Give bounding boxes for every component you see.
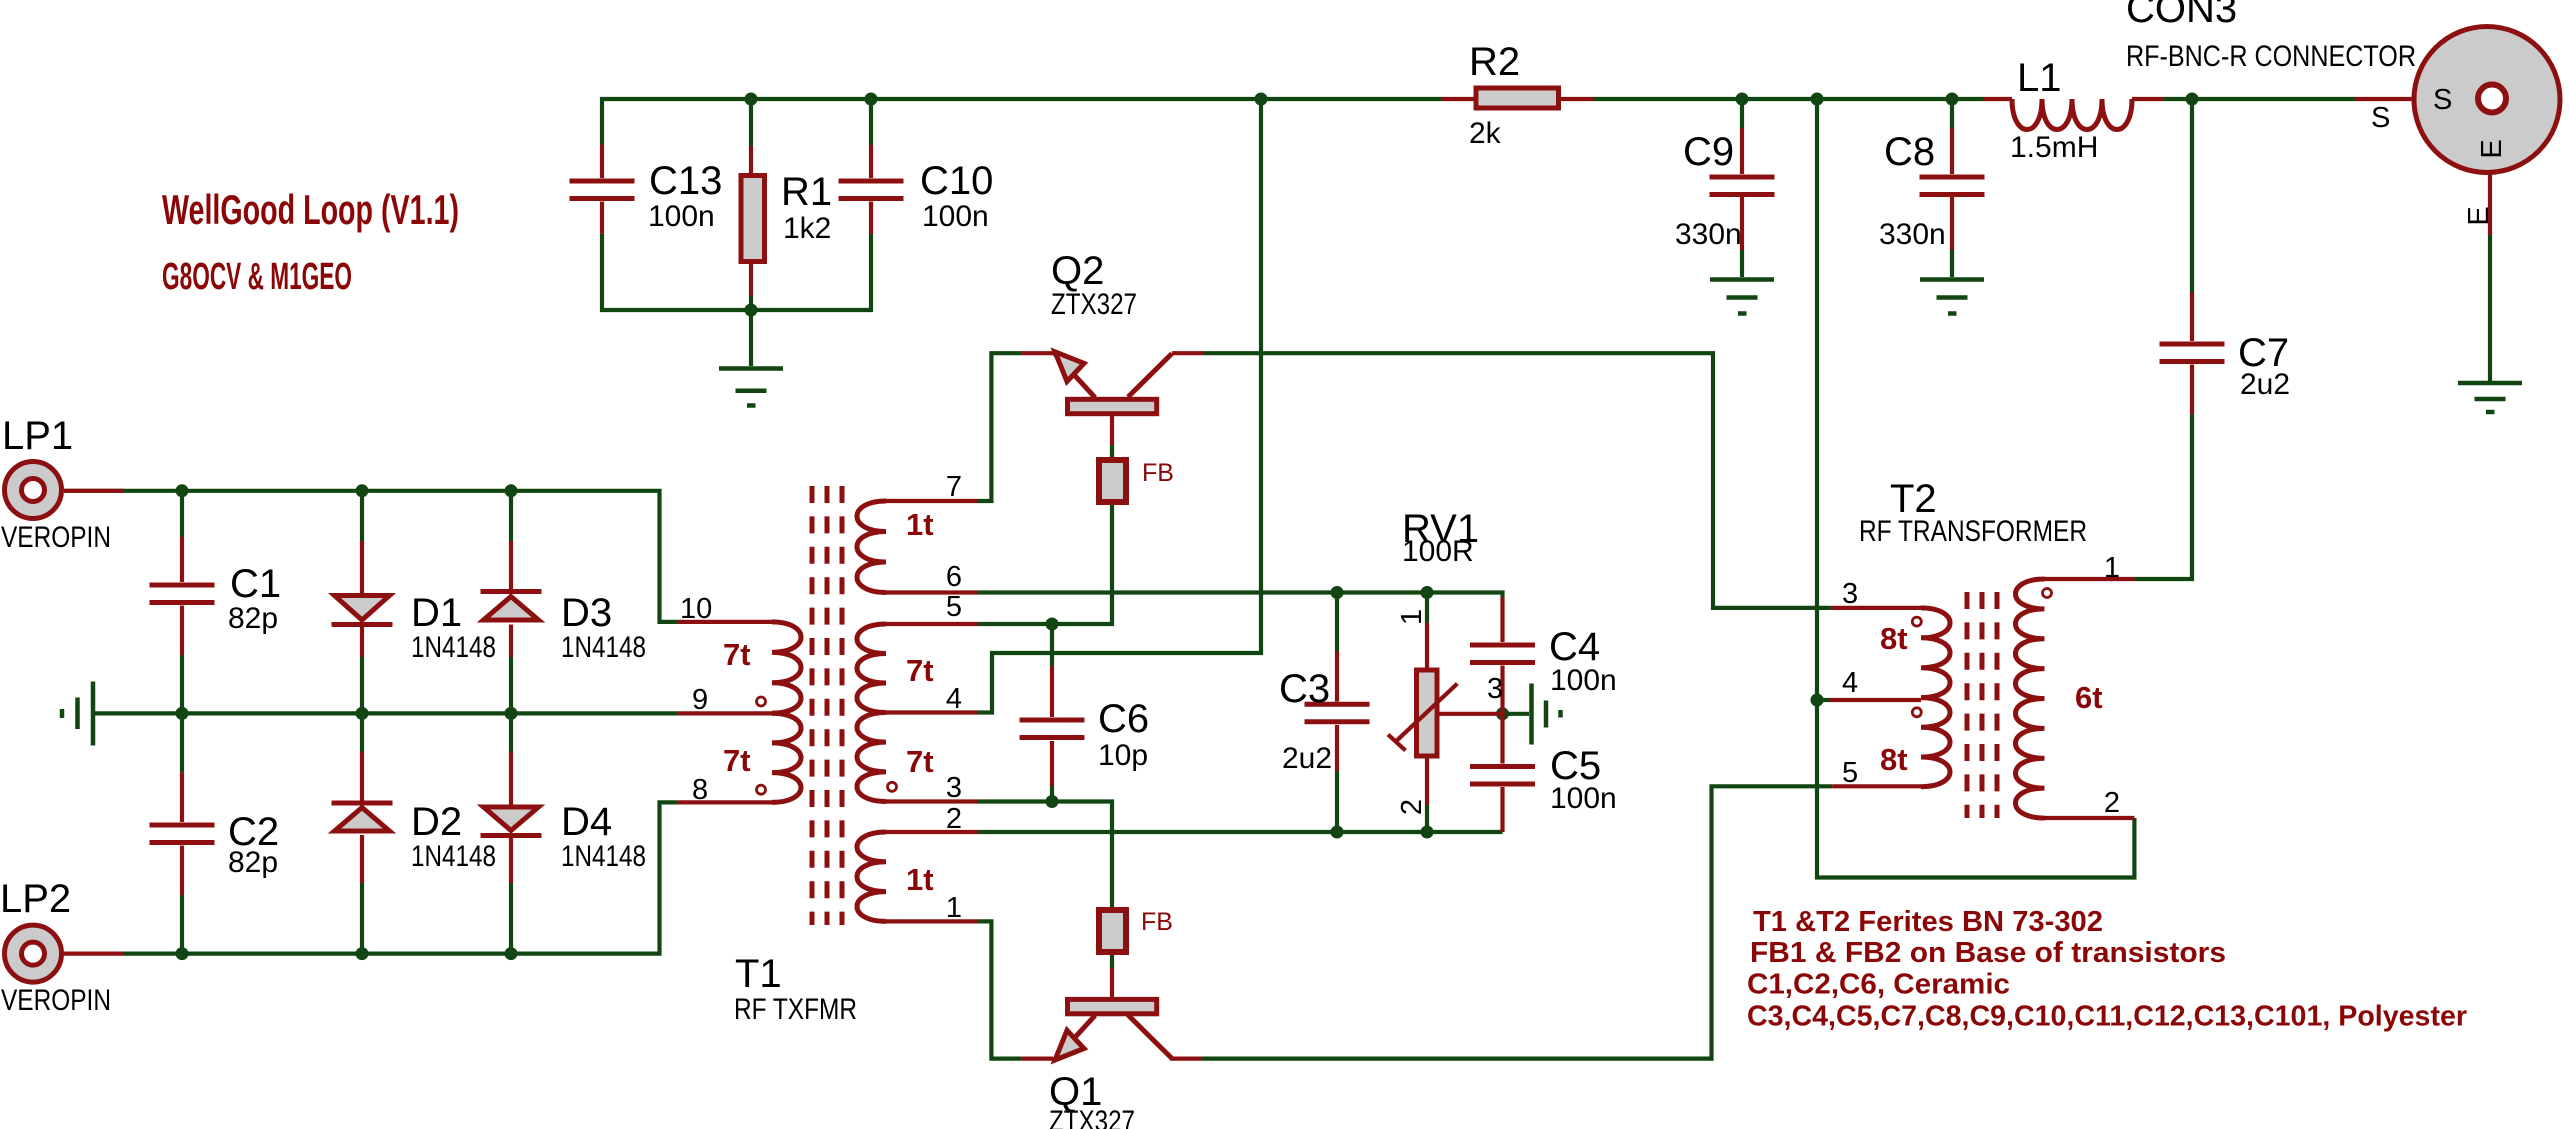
svg-text:8t: 8t: [1880, 621, 1908, 656]
svg-text:S: S: [2433, 84, 2452, 116]
svg-text:1k2: 1k2: [783, 212, 831, 245]
svg-text:R1: R1: [781, 170, 832, 214]
svg-text:1N4148: 1N4148: [411, 840, 496, 873]
svg-text:C1,C2,C6, Ceramic: C1,C2,C6, Ceramic: [1747, 969, 2010, 1001]
svg-text:100n: 100n: [1550, 664, 1617, 697]
svg-text:9: 9: [692, 684, 708, 716]
svg-text:82p: 82p: [228, 602, 278, 635]
svg-text:1N4148: 1N4148: [561, 840, 646, 873]
svg-text:C10: C10: [920, 159, 993, 203]
svg-text:82p: 82p: [228, 846, 278, 879]
svg-text:2: 2: [2104, 787, 2120, 819]
svg-text:10p: 10p: [1098, 739, 1148, 772]
svg-text:10: 10: [680, 593, 712, 625]
svg-text:D3: D3: [561, 591, 612, 635]
svg-text:C4: C4: [1549, 625, 1600, 669]
svg-text:C3: C3: [1279, 667, 1330, 711]
svg-text:2u2: 2u2: [1282, 742, 1332, 775]
svg-text:VEROPIN: VEROPIN: [1, 984, 111, 1017]
svg-text:7t: 7t: [723, 743, 751, 778]
svg-text:L1: L1: [2017, 56, 2062, 100]
svg-text:T1 &T2 Ferites BN 73-302: T1 &T2 Ferites BN 73-302: [1753, 906, 2103, 938]
svg-text:6: 6: [946, 561, 962, 593]
svg-text:1t: 1t: [906, 862, 934, 897]
svg-text:5: 5: [946, 591, 962, 623]
svg-text:LP1: LP1: [2, 414, 73, 458]
svg-text:2: 2: [1396, 799, 1428, 815]
svg-text:D1: D1: [411, 591, 462, 635]
svg-text:100R: 100R: [1402, 535, 1474, 568]
svg-text:1N4148: 1N4148: [561, 631, 646, 664]
svg-text:7t: 7t: [906, 744, 934, 779]
svg-text:Q2: Q2: [1051, 249, 1104, 293]
svg-text:3: 3: [946, 772, 962, 804]
svg-text:2k: 2k: [1469, 117, 1502, 150]
svg-text:C3,C4,C5,C7,C8,C9,C10,C11,C12,: C3,C4,C5,C7,C8,C9,C10,C11,C12,C13,C101, …: [1747, 1001, 2467, 1033]
svg-text:D4: D4: [561, 800, 612, 844]
svg-text:S: S: [2371, 102, 2390, 134]
svg-text:6t: 6t: [2075, 680, 2103, 715]
svg-text:ZTX327: ZTX327: [1051, 288, 1137, 321]
svg-text:4: 4: [946, 683, 962, 715]
svg-text:330n: 330n: [1675, 218, 1742, 251]
svg-text:VEROPIN: VEROPIN: [1, 521, 111, 554]
svg-text:1t: 1t: [906, 507, 934, 542]
svg-text:LP2: LP2: [0, 877, 71, 921]
svg-text:RF TRANSFORMER: RF TRANSFORMER: [1859, 515, 2087, 548]
svg-text:RF-BNC-R CONNECTOR: RF-BNC-R CONNECTOR: [2126, 40, 2416, 73]
svg-text:8: 8: [692, 774, 708, 806]
svg-text:T1: T1: [735, 952, 782, 996]
svg-text:100n: 100n: [1550, 782, 1617, 815]
svg-text:8t: 8t: [1880, 742, 1908, 777]
svg-text:R2: R2: [1469, 40, 1520, 84]
svg-text:C6: C6: [1098, 697, 1149, 741]
svg-text:D2: D2: [411, 800, 462, 844]
svg-text:CON3: CON3: [2126, 0, 2237, 31]
svg-text:2u2: 2u2: [2240, 368, 2290, 401]
svg-text:WellGood Loop (V1.1): WellGood Loop (V1.1): [162, 186, 459, 233]
svg-text:330n: 330n: [1879, 218, 1946, 251]
svg-text:FB: FB: [1142, 459, 1174, 487]
svg-text:RF TXFMR: RF TXFMR: [734, 993, 857, 1026]
svg-text:100n: 100n: [922, 200, 989, 233]
svg-text:2: 2: [946, 803, 962, 835]
svg-text:C1: C1: [230, 562, 281, 606]
svg-text:C9: C9: [1683, 130, 1734, 174]
svg-text:E: E: [2463, 206, 2495, 225]
svg-text:1N4148: 1N4148: [411, 631, 496, 664]
svg-text:4: 4: [1842, 667, 1858, 699]
svg-text:1.5mH: 1.5mH: [2010, 131, 2098, 164]
svg-text:7t: 7t: [723, 637, 751, 672]
svg-text:3: 3: [1842, 578, 1858, 610]
svg-text:100n: 100n: [648, 200, 715, 233]
svg-text:FB1 & FB2 on Base of transisto: FB1 & FB2 on Base of transistors: [1750, 937, 2226, 969]
svg-text:7t: 7t: [906, 653, 934, 688]
svg-text:C8: C8: [1884, 130, 1935, 174]
svg-text:E: E: [2476, 139, 2508, 158]
svg-text:ZTX327: ZTX327: [1049, 1105, 1135, 1129]
svg-text:1: 1: [1396, 609, 1428, 625]
svg-text:1: 1: [946, 892, 962, 924]
svg-text:C13: C13: [649, 159, 722, 203]
svg-text:7: 7: [946, 471, 962, 503]
svg-text:FB: FB: [1141, 908, 1173, 936]
svg-text:5: 5: [1842, 757, 1858, 789]
svg-text:1: 1: [2104, 552, 2120, 584]
svg-text:G8OCV & M1GEO: G8OCV & M1GEO: [162, 256, 352, 298]
svg-text:3: 3: [1487, 673, 1503, 705]
